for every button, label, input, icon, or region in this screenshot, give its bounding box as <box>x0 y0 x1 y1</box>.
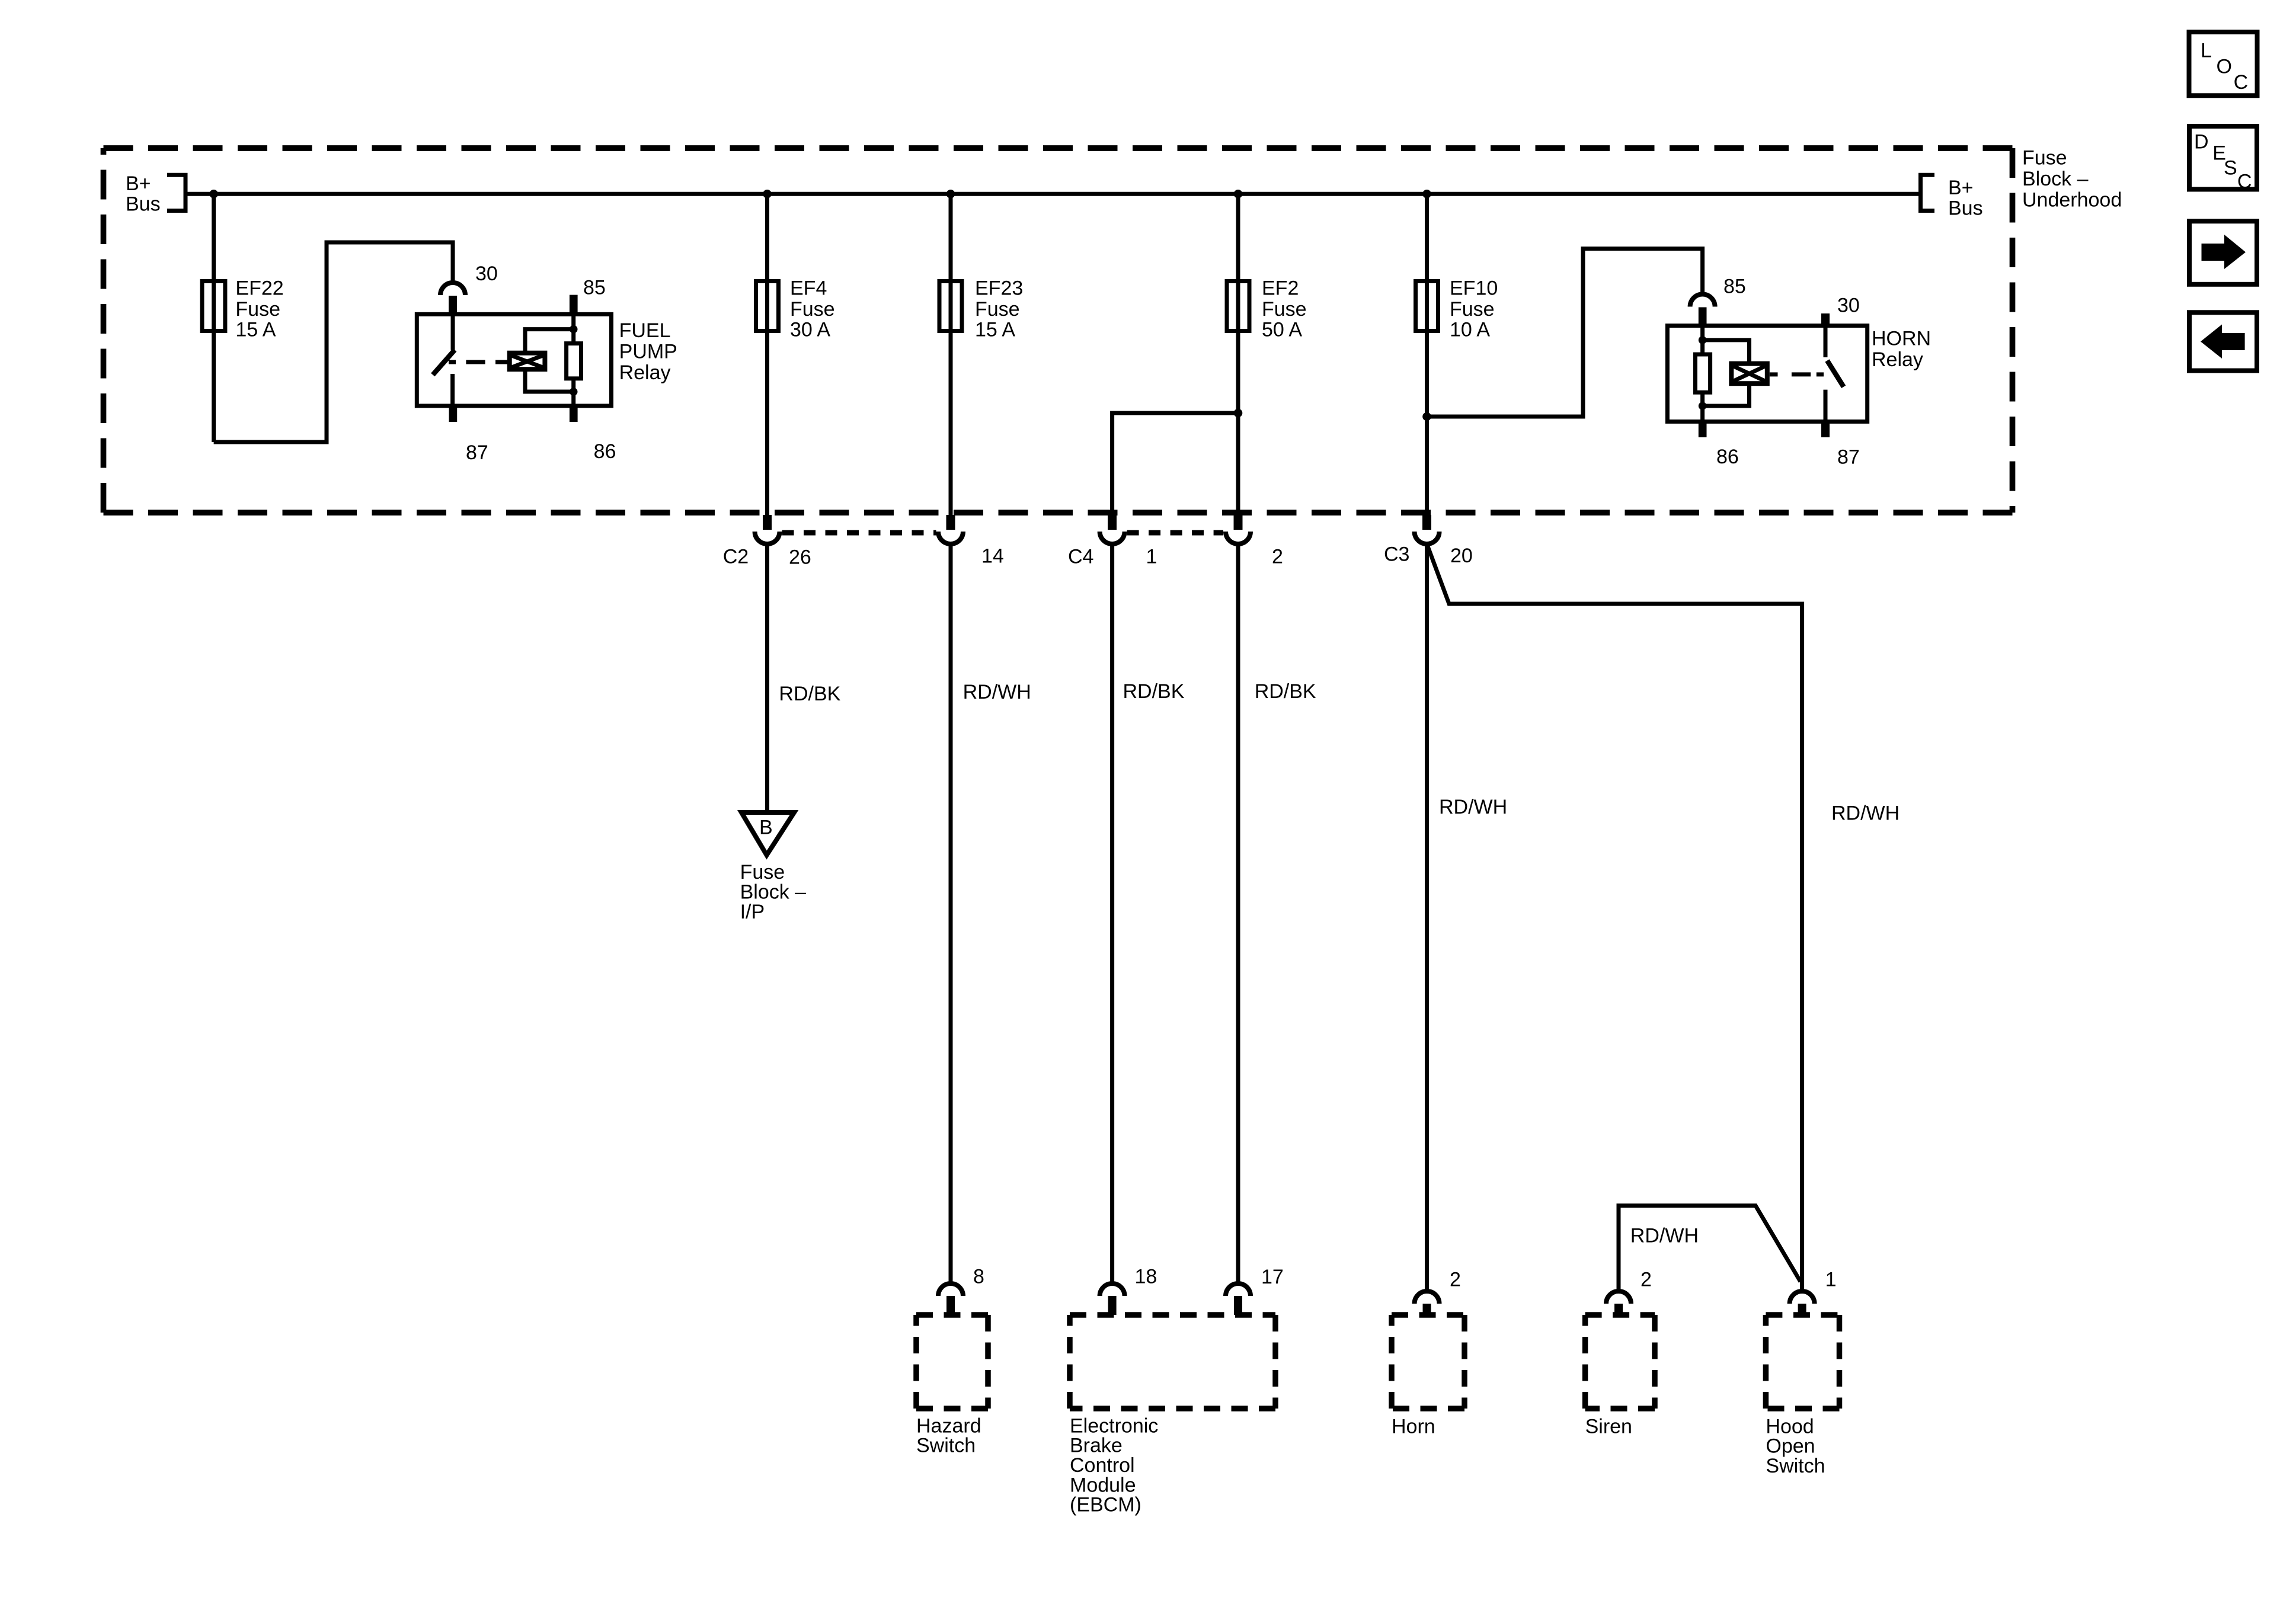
svg-text:30 A: 30 A <box>790 319 830 341</box>
connector pin 17 dome (EBCM) <box>1226 1283 1251 1296</box>
wire pin85 through resistor (horn relay) <box>1700 325 1705 354</box>
resistor (horn relay) <box>1695 354 1710 392</box>
relay box FUEL PUMP <box>417 314 611 406</box>
svg-text:Open: Open <box>1766 1435 1815 1458</box>
label Fuse Block - Underhood <box>2022 146 2122 211</box>
wire EF23 branch vertical <box>949 194 953 515</box>
wire EF10 junction to horn relay pin 85 <box>1427 249 1703 417</box>
coil box (horn relay) <box>1731 364 1767 384</box>
wire coil parallel bottom (horn relay) <box>1703 383 1750 406</box>
svg-text:Electronic: Electronic <box>1070 1414 1158 1437</box>
coil right stub (horn relay) <box>1770 372 1778 376</box>
connector C2 pin 26 cup <box>763 515 772 530</box>
svg-text:Relay: Relay <box>619 361 671 384</box>
junction coil bottom (horn relay) <box>1699 402 1707 410</box>
svg-text:RD/WH: RD/WH <box>963 681 1031 703</box>
svg-text:Brake: Brake <box>1070 1435 1123 1457</box>
wire C2 to fuse block IP <box>765 544 769 812</box>
svg-text:2: 2 <box>1450 1268 1461 1291</box>
wire siren branch <box>1619 1206 1801 1292</box>
junction EF2-C4 <box>1234 409 1243 418</box>
svg-text:Fuse: Fuse <box>740 861 785 884</box>
wire 2 to EBCM 17 <box>1236 544 1240 1283</box>
junction bus-EF10 <box>1422 190 1431 199</box>
svg-text:Fuse: Fuse <box>1450 298 1495 321</box>
svg-text:Fuse: Fuse <box>235 298 280 321</box>
pin 85 stub (fuel) <box>570 295 578 313</box>
svg-text:Underhood: Underhood <box>2022 188 2122 211</box>
svg-text:Fuse: Fuse <box>790 298 835 321</box>
junction coil top (fuel relay) <box>570 325 578 334</box>
svg-text:1: 1 <box>1825 1268 1837 1291</box>
node B+ Bus right bracket <box>1921 175 1935 210</box>
wire EF22 to relay pin 30 <box>214 242 453 442</box>
connector C3 pin 20 cup <box>1422 515 1431 530</box>
switch actuator dashes (horn relay) <box>1792 372 1811 376</box>
svg-text:Fuse: Fuse <box>2022 146 2067 169</box>
fuse block underhood dashed box <box>104 148 2013 513</box>
svg-text:Fuse: Fuse <box>1262 298 1307 321</box>
wire EF4 branch vertical <box>765 194 769 515</box>
svg-text:RD/BK: RD/BK <box>1123 680 1185 703</box>
svg-text:B+: B+ <box>126 172 151 195</box>
connector pin 14 cup <box>946 515 955 530</box>
svg-text:Hood: Hood <box>1766 1415 1814 1438</box>
component box Hood Open Switch <box>1766 1315 1839 1409</box>
wire C3-20 to horn <box>1425 544 1429 1291</box>
junction coil bottom (fuel relay) <box>570 388 578 396</box>
fuse EF4 <box>756 281 779 331</box>
svg-text:10 A: 10 A <box>1450 319 1490 341</box>
connector 85 dome (horn relay) <box>1690 295 1715 307</box>
pin 86 stub (fuel) <box>570 407 578 422</box>
wire EF2 branch vertical <box>1236 194 1240 515</box>
pin 87 stub (horn) <box>1821 422 1830 437</box>
svg-text:87: 87 <box>1837 446 1860 468</box>
switch fixed contact bottom (horn relay) <box>1824 390 1828 421</box>
svg-text:EF2: EF2 <box>1262 277 1299 300</box>
svg-text:C4: C4 <box>1068 545 1093 568</box>
svg-text:20: 20 <box>1450 545 1473 567</box>
svg-text:S: S <box>2224 156 2237 179</box>
svg-text:EF23: EF23 <box>975 277 1023 300</box>
junction bus-EF23 <box>946 190 955 199</box>
connector pin 2 cup <box>1234 515 1243 530</box>
svg-text:FUEL: FUEL <box>619 319 671 342</box>
pin 30 stub (horn) <box>1821 313 1830 326</box>
switch fixed contact top (horn relay) <box>1824 325 1828 357</box>
svg-text:B: B <box>759 816 773 838</box>
svg-text:RD/BK: RD/BK <box>1255 680 1316 703</box>
connector pin 18 dome (EBCM) <box>1100 1283 1125 1296</box>
connector dashed link C2-14 <box>782 530 936 536</box>
junction bus-EF22 <box>209 190 218 199</box>
fuse EF2 <box>1227 281 1249 331</box>
label HORN Relay <box>1872 327 1931 371</box>
connector pin 2 dome (siren) <box>1606 1291 1631 1304</box>
fuse EF23 <box>939 281 962 331</box>
resistor (fuel relay) <box>567 344 581 379</box>
wire pin85 through resistor (fuel relay) <box>571 312 575 343</box>
svg-text:Control: Control <box>1070 1454 1135 1477</box>
switch actuator dashes (fuel relay) <box>449 360 456 364</box>
junction EF10 horn loop <box>1422 412 1431 421</box>
svg-text:I/P: I/P <box>740 901 765 923</box>
wire C3-20 branch to hood open switch <box>1427 544 1802 1291</box>
svg-text:EF22: EF22 <box>235 277 283 300</box>
icon DESC box <box>2189 126 2257 193</box>
svg-text:B+: B+ <box>1948 177 1974 199</box>
svg-text:EF4: EF4 <box>790 277 827 300</box>
connector pin 1 dome (hood open switch) <box>1790 1291 1815 1304</box>
svg-text:85: 85 <box>583 276 606 299</box>
icon LOC box <box>2189 32 2257 95</box>
junction bus-EF4 <box>763 190 772 199</box>
svg-text:(EBCM): (EBCM) <box>1070 1494 1141 1516</box>
pin 87 stub (fuel) <box>449 407 458 422</box>
svg-text:HORN: HORN <box>1872 327 1931 350</box>
svg-text:C3: C3 <box>1384 543 1409 565</box>
node B+ Bus left bracket <box>167 175 186 210</box>
svg-text:Siren: Siren <box>1585 1415 1632 1438</box>
svg-text:O: O <box>2217 56 2232 78</box>
switch blade (fuel relay) <box>433 350 455 375</box>
svg-text:8: 8 <box>973 1265 984 1288</box>
coil box (fuel relay) <box>510 353 545 370</box>
svg-text:17: 17 <box>1261 1266 1284 1288</box>
component box Siren <box>1585 1315 1655 1409</box>
connector pin 8 dome (hazard switch) <box>938 1283 963 1296</box>
svg-text:87: 87 <box>466 441 488 464</box>
svg-text:Fuse: Fuse <box>975 298 1020 321</box>
svg-text:1: 1 <box>1146 545 1157 568</box>
svg-text:C2: C2 <box>723 545 749 568</box>
svg-text:Bus: Bus <box>1948 197 1983 219</box>
connector dashed link 1-2 <box>1127 530 1223 536</box>
svg-text:14: 14 <box>981 545 1004 567</box>
junction coil top (horn relay) <box>1699 336 1707 344</box>
wire EF10 branch vertical <box>1425 194 1429 515</box>
svg-text:L: L <box>2201 40 2212 62</box>
component box EBCM <box>1070 1315 1275 1409</box>
switch fixed contact bottom (fuel relay) <box>450 374 455 405</box>
svg-text:Horn: Horn <box>1392 1415 1435 1438</box>
wire B+ bus horizontal <box>186 192 1921 196</box>
svg-text:D: D <box>2194 131 2209 153</box>
svg-text:RD/WH: RD/WH <box>1831 802 1900 824</box>
connector pin 2 dome (horn) <box>1415 1291 1440 1304</box>
svg-text:18: 18 <box>1135 1265 1157 1288</box>
icon right arrow box <box>2189 221 2257 284</box>
component box Horn <box>1392 1315 1464 1409</box>
label FUEL PUMP Relay <box>619 319 677 384</box>
fuse EF22 <box>202 281 225 331</box>
wire C4-1 riser to EF2 <box>1112 413 1238 515</box>
svg-text:EF10: EF10 <box>1450 277 1498 300</box>
svg-text:15 A: 15 A <box>975 319 1015 341</box>
svg-text:30: 30 <box>475 263 498 285</box>
icon left arrow box <box>2189 312 2257 370</box>
pin 86 stub (horn) <box>1699 422 1707 437</box>
connector C4 pin 1 cup <box>1108 515 1117 530</box>
svg-text:50 A: 50 A <box>1262 319 1302 341</box>
relay box HORN <box>1667 326 1867 422</box>
svg-text:RD/WH: RD/WH <box>1630 1224 1699 1247</box>
svg-text:30: 30 <box>1837 294 1860 316</box>
svg-text:2: 2 <box>1272 545 1283 568</box>
svg-text:Switch: Switch <box>916 1435 976 1457</box>
svg-text:Module: Module <box>1070 1474 1136 1496</box>
svg-text:86: 86 <box>594 440 616 463</box>
svg-text:Block –: Block – <box>740 881 807 904</box>
svg-text:85: 85 <box>1723 275 1746 297</box>
svg-text:86: 86 <box>1716 446 1739 468</box>
junction bus-EF2 <box>1234 190 1243 199</box>
svg-text:Block –: Block – <box>2022 168 2089 190</box>
svg-text:26: 26 <box>789 546 811 568</box>
wire EF22 branch vertical <box>212 194 216 442</box>
svg-text:15 A: 15 A <box>235 319 276 341</box>
wire coil parallel bottom (fuel relay) <box>525 369 574 392</box>
connector 30 dome (fuel pump relay) <box>440 283 465 295</box>
node B triangle (fuse block IP) <box>741 812 794 855</box>
svg-text:C: C <box>2237 170 2252 193</box>
switch fixed contact top (fuel relay) <box>451 314 455 350</box>
label Fuse Block - I/P <box>740 861 807 923</box>
svg-text:Switch: Switch <box>1766 1455 1825 1477</box>
svg-text:RD/BK: RD/BK <box>779 683 840 705</box>
switch blade (horn relay) <box>1827 361 1844 387</box>
component box Hazard Switch <box>916 1315 988 1409</box>
svg-text:PUMP: PUMP <box>619 341 677 363</box>
svg-text:C: C <box>2234 71 2249 94</box>
svg-text:Hazard: Hazard <box>916 1414 981 1437</box>
svg-text:Relay: Relay <box>1872 348 1923 371</box>
svg-text:Bus: Bus <box>126 193 161 216</box>
fuse EF10 <box>1416 281 1438 331</box>
wire 14 to hazard switch <box>949 544 953 1283</box>
svg-text:2: 2 <box>1641 1268 1652 1291</box>
svg-text:RD/WH: RD/WH <box>1439 796 1507 818</box>
wire coil parallel top (fuel relay) <box>525 329 574 353</box>
wire C4-1 to EBCM 18 <box>1110 544 1114 1283</box>
wire coil parallel top (horn relay) <box>1703 340 1750 364</box>
